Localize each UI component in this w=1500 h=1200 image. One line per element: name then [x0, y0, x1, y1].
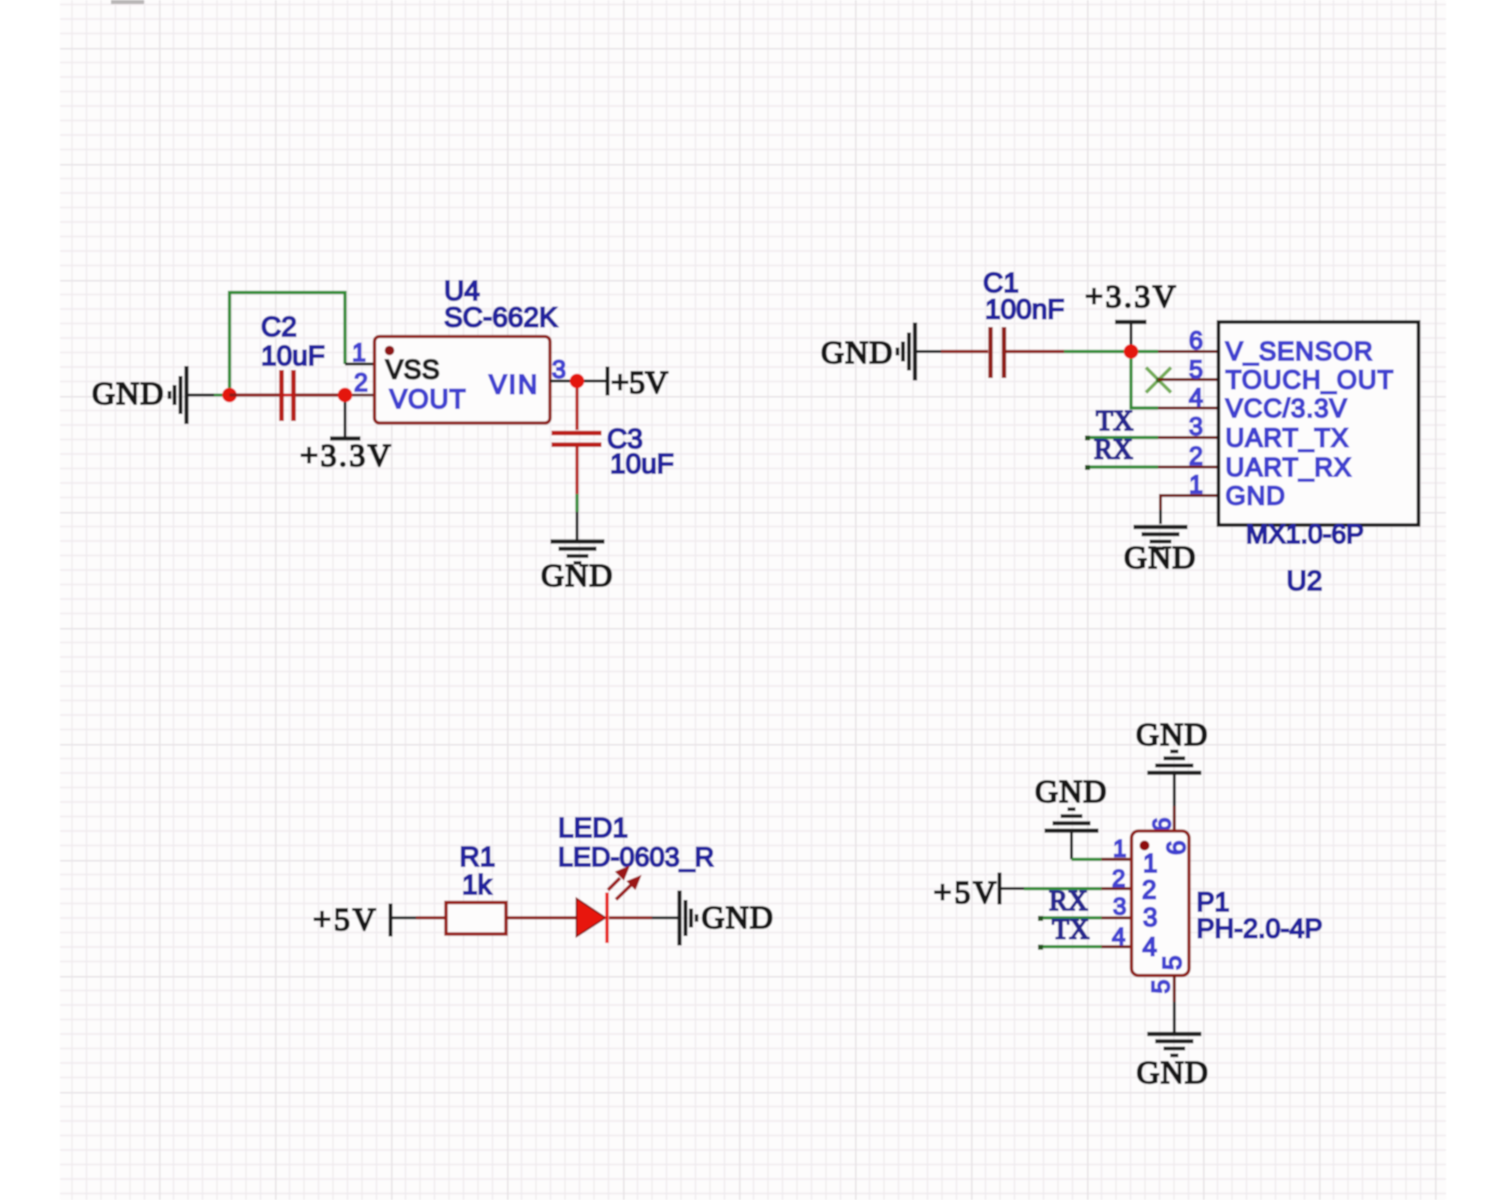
svg-text:VOUT: VOUT	[390, 384, 467, 414]
capacitor C3	[552, 423, 674, 479]
ground GND (left of C2)	[92, 366, 214, 424]
wire (dark red from LED)	[609, 916, 652, 919]
wire (green, node D to pin 6)	[1131, 350, 1158, 353]
power +5V (left)	[313, 901, 391, 937]
svg-text:6: 6	[1189, 327, 1203, 355]
LED arrow 1	[608, 867, 629, 891]
pin 3 of U2	[1158, 413, 1218, 441]
wire (black from top ground)	[1173, 775, 1176, 807]
svg-text:1: 1	[1143, 848, 1158, 878]
wire (black from +5V bar)	[1001, 887, 1024, 890]
wire (black to bottom ground)	[1173, 1002, 1176, 1032]
svg-text:2: 2	[1142, 875, 1157, 905]
svg-text:VIN: VIN	[489, 370, 539, 400]
wire (dark red to R1)	[416, 916, 446, 919]
wire (green to node D)	[1064, 350, 1131, 353]
svg-text:GND: GND	[92, 375, 164, 411]
wire (black to ground)	[576, 512, 579, 540]
svg-text:2: 2	[1112, 866, 1125, 893]
svg-text:C2: C2	[261, 311, 297, 342]
power +5V (right of node C)	[584, 364, 668, 400]
wire (green stub under TX, pin 3)	[1085, 436, 1158, 441]
svg-text:RX: RX	[1049, 886, 1088, 917]
pin 6 of P1	[1149, 806, 1177, 832]
node A junction	[222, 388, 237, 403]
svg-text:4: 4	[1143, 932, 1158, 962]
svg-text:2: 2	[1189, 443, 1203, 471]
power +5V (left of pin 2)	[934, 873, 1000, 911]
svg-text:1k: 1k	[462, 869, 493, 900]
pin 1 of P1	[1102, 836, 1132, 863]
pin 3 of U4	[550, 356, 570, 384]
svg-text:U2: U2	[1287, 565, 1323, 596]
wire (bright red under C2 gap)	[279, 394, 296, 397]
op-amp U4 body SC-662K	[375, 275, 558, 423]
svg-text:5: 5	[1157, 955, 1187, 970]
wire (black to ground)	[652, 916, 678, 919]
pin 1 of U2	[1161, 471, 1219, 510]
pin 3 of P1	[1102, 894, 1132, 921]
svg-text:3: 3	[1143, 902, 1158, 932]
wire (dark red, GND to C1)	[941, 350, 988, 353]
ground GND (left, above pin 1)	[1035, 773, 1107, 831]
ground GND (bottom)	[1137, 1034, 1209, 1090]
svg-text:UART_RX: UART_RX	[1226, 452, 1353, 482]
wire (dark red, node C down to C3)	[575, 381, 578, 430]
svg-text:1: 1	[1189, 471, 1203, 499]
svg-text:100nF: 100nF	[985, 294, 1064, 325]
ground GND (right of LED)	[680, 891, 774, 946]
svg-text:5: 5	[1189, 356, 1203, 384]
wire (green segment)	[575, 494, 578, 512]
svg-text:LED1: LED1	[558, 812, 628, 843]
no-connect flag X on pin 5	[1146, 368, 1171, 393]
svg-text:GND: GND	[541, 557, 613, 593]
ground GND (left of C1)	[821, 323, 941, 381]
svg-text:PH-2.0-4P: PH-2.0-4P	[1197, 914, 1323, 944]
svg-text:RX: RX	[1094, 435, 1133, 466]
svg-text:VCC/3.3V: VCC/3.3V	[1226, 393, 1348, 423]
svg-text:GND: GND	[1124, 539, 1196, 575]
svg-text:GND: GND	[1136, 716, 1208, 752]
ground GND (top, above pin 6)	[1136, 716, 1208, 773]
svg-text:TOUCH_OUT: TOUCH_OUT	[1226, 365, 1395, 395]
wire (green under RX, pin 3)	[1038, 916, 1102, 921]
pin 5 of U2	[1158, 356, 1218, 384]
top edge smudge	[111, 0, 144, 4]
pin 2 of U2	[1158, 443, 1218, 471]
power +3.3V (above node D)	[1085, 278, 1178, 352]
wire (black from +5V)	[392, 916, 416, 919]
svg-text:5: 5	[1148, 980, 1176, 994]
svg-text:GND: GND	[702, 899, 774, 935]
ground GND (below C3)	[541, 542, 613, 594]
svg-text:SC-662K: SC-662K	[444, 302, 558, 333]
svg-text:10uF: 10uF	[261, 340, 325, 371]
pin 2 of P1	[1102, 866, 1132, 893]
wire (dark red, C2 to node B)	[296, 393, 345, 396]
svg-text:+3.3V: +3.3V	[1085, 278, 1178, 314]
connector U2 body MX1.0-6P	[1219, 322, 1419, 596]
wire (dark red, node A to C2)	[230, 393, 280, 396]
LED arrow 2	[616, 876, 641, 900]
node B junction	[338, 388, 353, 403]
svg-text:+5V: +5V	[313, 901, 379, 937]
node D junction	[1124, 344, 1139, 359]
svg-text:4: 4	[1112, 924, 1125, 951]
svg-text:GND: GND	[1137, 1054, 1209, 1090]
capacitor C1	[983, 267, 1064, 378]
svg-text:3: 3	[1189, 413, 1203, 441]
svg-text:UART_TX: UART_TX	[1226, 423, 1350, 453]
svg-text:+5V: +5V	[934, 874, 1000, 910]
svg-text:3: 3	[1113, 894, 1126, 921]
ground GND (below pin 1 of U2)	[1124, 527, 1196, 575]
connector P1 body PH-2.0-4P	[1132, 831, 1323, 976]
pin 6 of U2	[1158, 327, 1218, 355]
wire (black, pin1 to ground)	[1159, 510, 1162, 524]
svg-text:1: 1	[352, 339, 366, 367]
svg-text:VSS: VSS	[386, 355, 441, 385]
svg-text:2: 2	[354, 369, 368, 397]
LED LED1	[558, 812, 714, 943]
svg-text:GND: GND	[1226, 481, 1286, 511]
svg-text:LED-0603_R: LED-0603_R	[558, 842, 714, 872]
svg-text:+5V: +5V	[611, 364, 668, 400]
svg-text:TX: TX	[1096, 406, 1133, 437]
svg-text:P1: P1	[1197, 887, 1230, 917]
wire (green to pin 2)	[1024, 887, 1102, 890]
wire (green stub under RX, pin 2)	[1085, 465, 1158, 470]
svg-text:R1: R1	[460, 841, 496, 872]
svg-text:GND: GND	[1035, 773, 1107, 809]
wire (green, node D to pin 4)	[1131, 352, 1158, 409]
svg-text:1: 1	[1113, 836, 1126, 863]
wire (dark red below C3)	[575, 446, 578, 494]
svg-text:TX: TX	[1052, 915, 1089, 946]
svg-text:+3.3V: +3.3V	[300, 437, 393, 473]
svg-text:GND: GND	[821, 334, 893, 370]
svg-text:4: 4	[1189, 384, 1203, 412]
pin 1 of U4	[345, 339, 375, 367]
wire (green to pin 1)	[1072, 858, 1102, 861]
wire (dark red R1 to LED)	[506, 916, 576, 919]
svg-text:3: 3	[552, 356, 566, 384]
capacitor C2	[261, 311, 325, 421]
wire (dark red, C1 right)	[1006, 350, 1064, 353]
pin 4 of P1	[1102, 924, 1132, 951]
pin 2 of U4	[351, 369, 375, 397]
resistor R1	[446, 841, 506, 934]
svg-text:10uF: 10uF	[610, 448, 674, 479]
pin 5 of P1	[1148, 976, 1176, 1003]
svg-text:6: 6	[1161, 840, 1191, 855]
wire (green loop from node A to pin 1 of U4)	[230, 293, 346, 396]
wire (green under TX, pin 4)	[1038, 945, 1102, 950]
svg-text:MX1.0-6P: MX1.0-6P	[1246, 519, 1364, 549]
wire (green, GND to node A)	[214, 394, 229, 397]
svg-text:V_SENSOR: V_SENSOR	[1226, 336, 1374, 366]
power +3.3V (below node B)	[300, 395, 393, 473]
pin 4 of U2	[1158, 384, 1218, 412]
node C junction	[570, 374, 585, 389]
wire (black from left ground)	[1070, 832, 1073, 859]
